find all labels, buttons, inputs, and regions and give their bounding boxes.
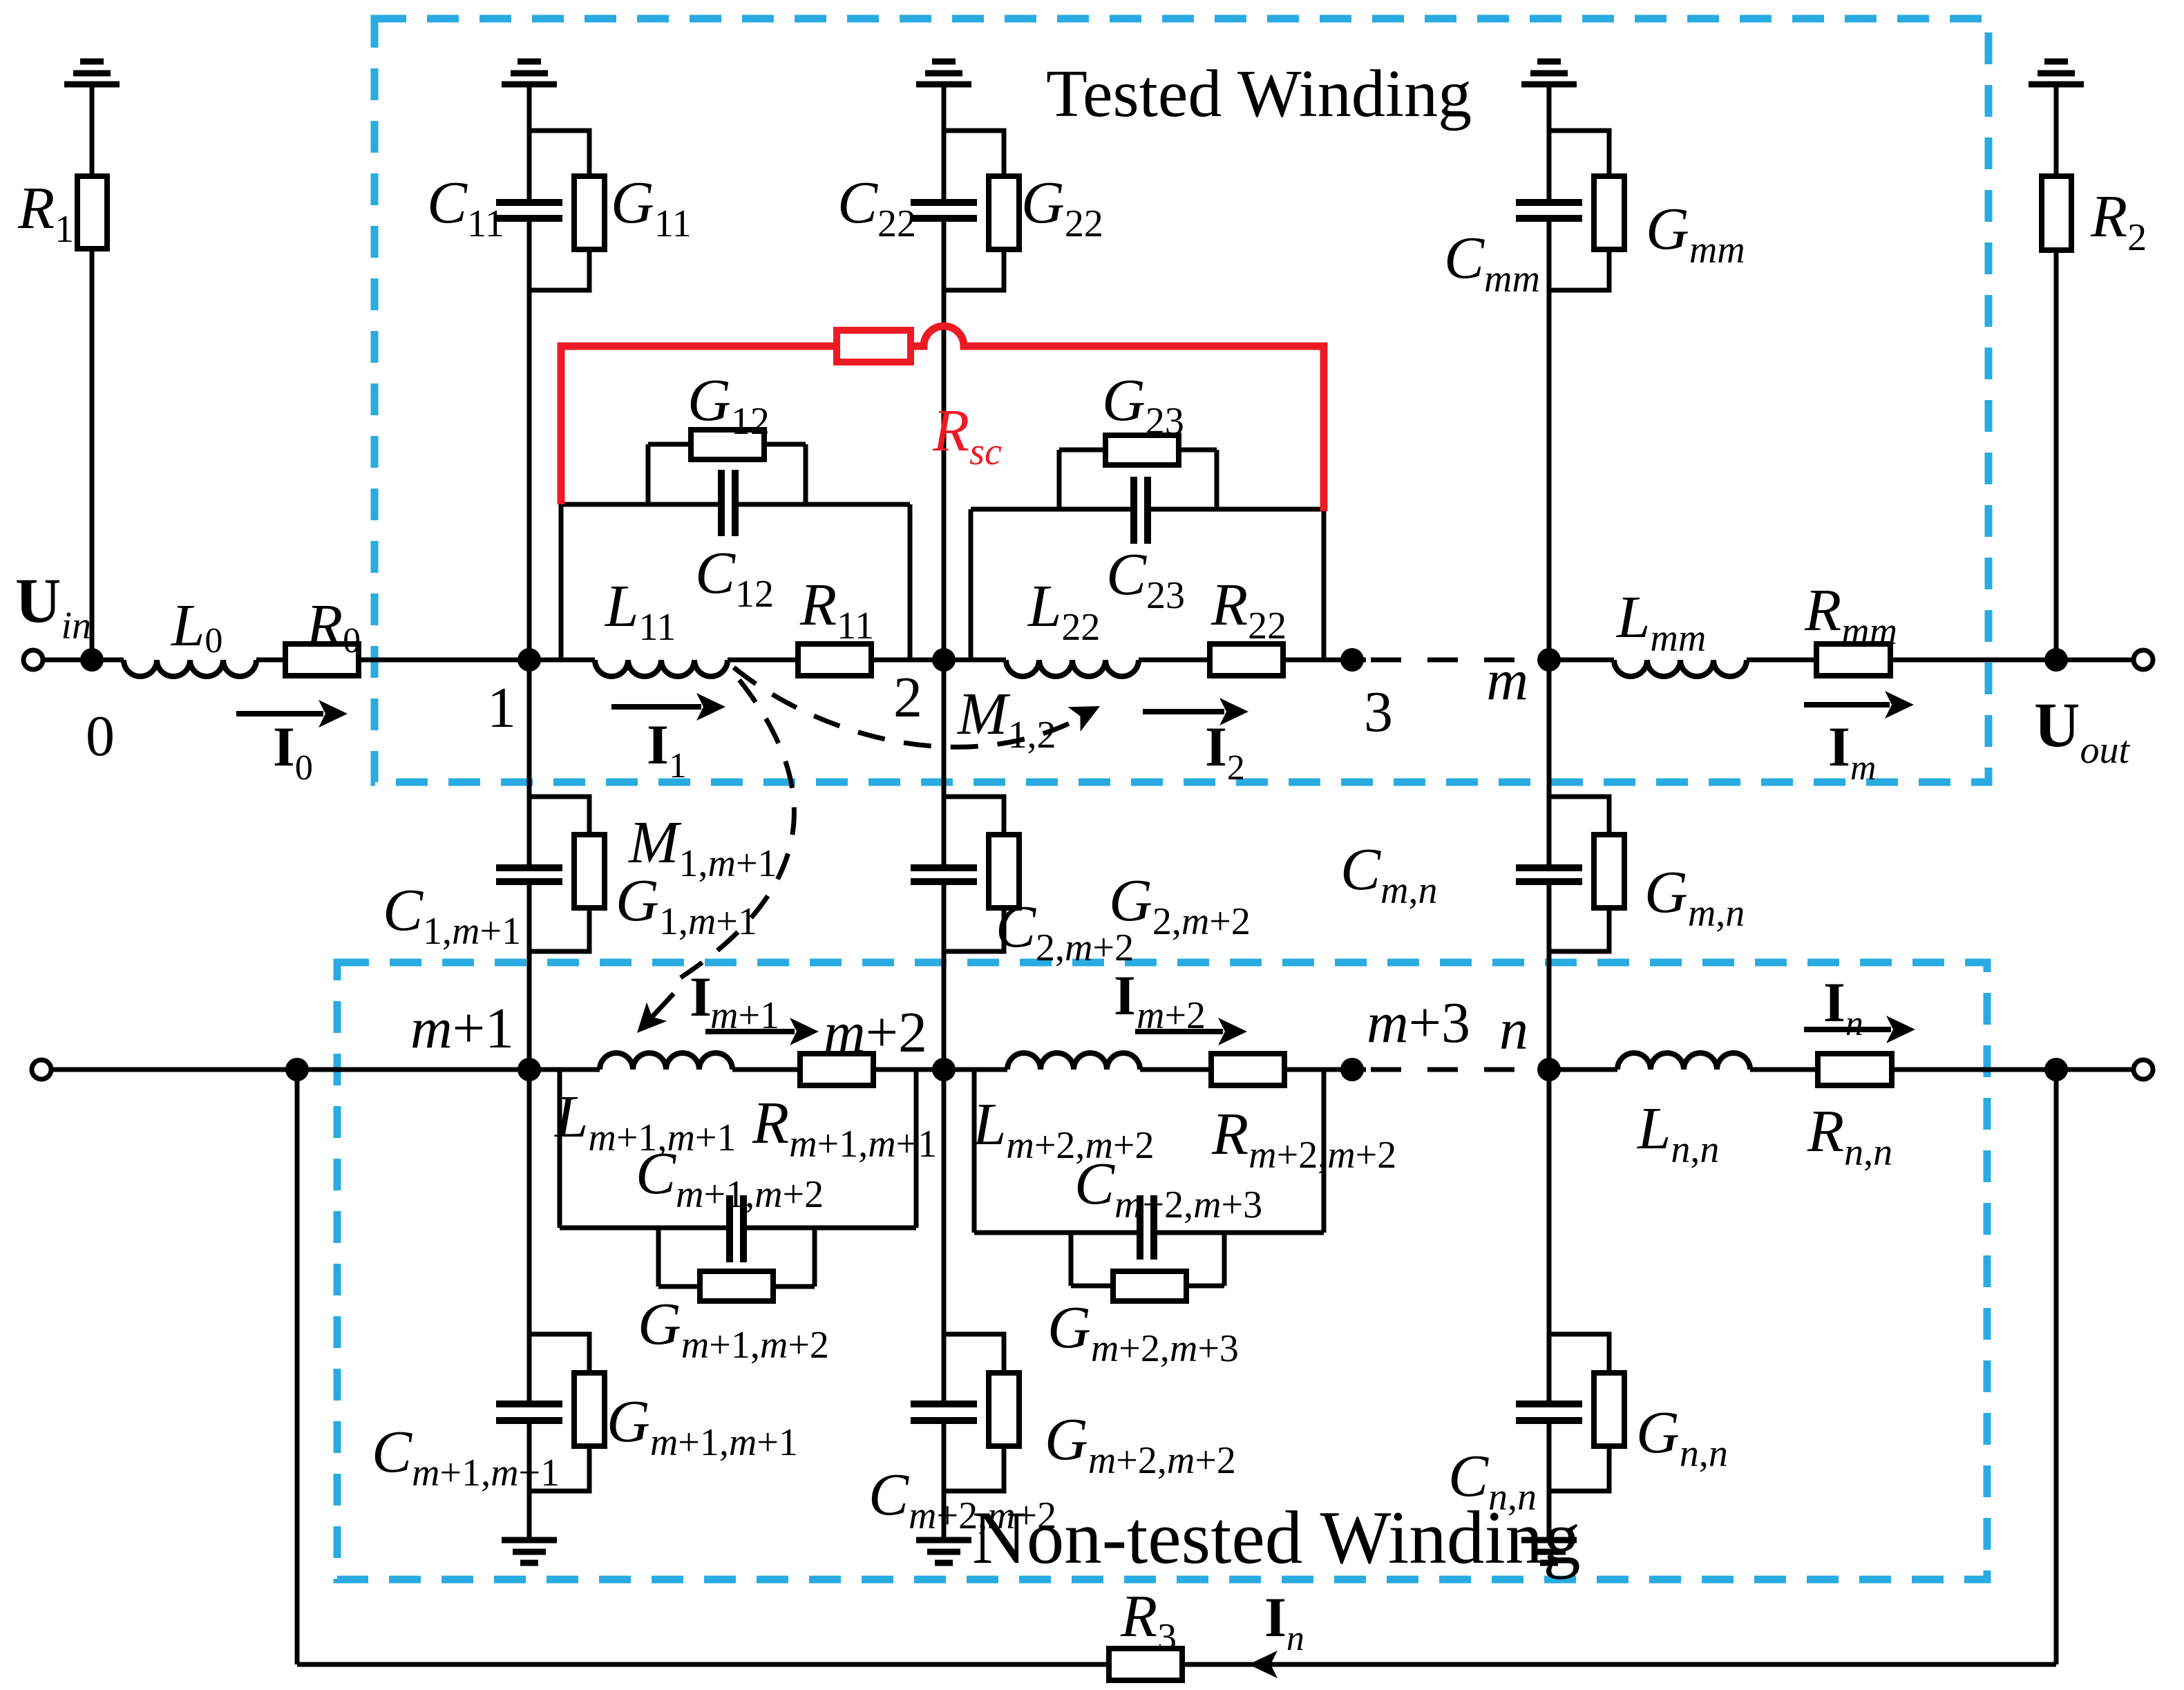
wire: G1,m+1 rejoin [529,908,589,951]
node 2 [932,648,956,672]
wire G12 subloop left [646,444,651,504]
arrow I0 [236,711,323,716]
wire Gm+1,m+2 subloop left [656,1228,661,1287]
capacitor C12 plates [718,470,725,536]
ground above Cmm/Gmm unit [1537,59,1561,65]
wire: branch to Gm,n [1549,797,1609,835]
wire: R1 to node 0 [90,249,95,660]
wire top bus: terminal to L0 [43,658,124,663]
svg-text:m+3: m+3 [1367,991,1470,1055]
node m+3 [1340,1058,1364,1081]
conductance Gm+2,m+3 [1113,1271,1186,1301]
node 1 [517,648,541,672]
wire top bus: Rmm to right terminal [1890,658,2134,663]
wire: node to capacitor Cm+2,m+2 [942,1070,947,1404]
arrow I1 [611,704,701,710]
wire: Cm,n to bottom node [1547,882,1552,1070]
svg-text:1: 1 [487,676,516,740]
conductance Gm+2,m+2 [989,1373,1019,1446]
wire: ground to R2 [2054,84,2059,176]
wire: Cm+2,m+2 to ground [942,1421,947,1540]
svg-text:2: 2 [893,665,922,730]
wire bottom bus: Ln to Rn [1750,1067,1818,1072]
wire Gm+2,m+3 subloop right [1222,1233,1227,1286]
wire bottom bus dashed: node m+3 to node n [1371,1067,1549,1072]
resistor R22 [1210,644,1283,676]
wire: C1,m+1 to bottom node [527,882,532,1070]
wire top bus dashed: node 3 to node m [1371,658,1549,663]
wire: node to capacitor C1,m+1 [527,660,532,868]
wire top bus: R0 to node 1 to L11 [359,658,595,663]
wire: return line left of R3 [297,1662,1109,1667]
resistor R2 [2042,176,2071,250]
resistor Rm+1,m+1 [800,1054,873,1085]
conductance G22 [989,176,1019,249]
wire top bus: R11 to node 2 to L22 [871,658,1006,663]
conductance Gmm [1594,176,1624,249]
wire loop B left vertical [969,509,974,660]
wire: return line right of R3 [1182,1662,2056,1667]
wire Gm+1,m+2 subloop right [813,1228,817,1287]
node m [1537,648,1561,672]
terminal bottom right [2134,1060,2153,1079]
svg-text:3: 3 [1364,680,1393,744]
wire Gm+2,m+3 subloop left [1069,1233,1074,1286]
wire: branch to Gm+2,m+2 [944,1334,1004,1373]
inductor L22 [1006,660,1139,676]
wire bottom bus: Rm+2 to node m+3 [1284,1067,1366,1072]
wire: Gmm to top bus rejoin [1549,249,1609,290]
resistor Rsc (red) [837,330,911,362]
wire: C22 to top bus [942,218,947,660]
resistor R3 [1109,1649,1182,1680]
wire loop A left vertical [559,504,564,660]
red wire: loop A top to Rsc [561,346,837,504]
blue dashed box: Non-tested Winding region [337,962,1987,1579]
wire: bottom-right leg down [2054,1070,2059,1664]
svg-text:n: n [1499,998,1528,1062]
node 0 [80,648,104,672]
resistor R1 [77,176,107,249]
inductor Lm+2,m+2 [1007,1053,1140,1070]
wire G23 subloop right [1215,450,1219,509]
ground above C22/G22 unit [932,59,956,65]
wire: ground to capacitor C11 [527,84,532,200]
wire loop C right vertical [914,1070,919,1228]
wire G12 subloop top [648,442,691,447]
conductance Gm+1,m+1 [574,1373,605,1446]
resistor Rn,n [1818,1054,1892,1085]
arrow Im [1804,702,1890,708]
ground above C11/G11 unit [517,59,541,65]
inductor Ln,n [1617,1053,1750,1070]
inductor L0 [124,660,256,676]
junction bottom left [285,1058,309,1081]
inductor Lmm [1614,660,1747,676]
capacitor C23 plates [1130,477,1137,544]
ground below Cm+1,m+1 [502,1537,557,1544]
capacitor Cmm plates [1516,199,1582,206]
svg-text:Tested Winding: Tested Winding [1046,57,1472,131]
terminal bottom left [32,1060,51,1079]
conductance Gm+1,m+2 [700,1271,773,1301]
wire top bus: Lmm to Rmm [1747,658,1816,663]
wire loop A right vertical [908,504,913,660]
node Uout junction [2044,648,2068,672]
inductor Lm+1,m+1 [600,1053,732,1070]
arrow In bottom [1804,1027,1891,1032]
wire loop A top side [561,502,719,507]
wire: Cmm to top bus [1547,218,1552,660]
wire loop C bottom side [560,1226,727,1231]
wire: branch to Gmm [1549,131,1609,176]
inductor L11 [595,660,728,676]
wire bottom bus: node n to Ln [1549,1067,1617,1072]
wire bottom bus: Rm+1 to node m+2 to Lm+2 [873,1067,1007,1072]
wire: branch to G2,m+2 [944,797,1004,835]
wire: G11 to top bus rejoin [529,249,589,290]
ground below Cm+2,m+2 [916,1537,971,1544]
capacitor Cm+1,m+2 plates [726,1195,733,1262]
wire bottom bus: Lm+2 to Rm+2 [1140,1067,1211,1072]
svg-text:m+2: m+2 [824,1000,927,1065]
wire bottom bus: Lm+1 to Rm+1 [732,1067,800,1072]
svg-text:I: I [690,965,712,1028]
wire top bus: L11 to R11 [728,658,798,663]
resistor Rmm [1816,644,1890,676]
wire: G22 to top bus rejoin [944,249,1004,290]
conductance G11 [574,176,605,249]
capacitor C22 plates [911,199,977,206]
terminal Uout [2134,650,2153,670]
wire top bus: node m to Lmm [1549,658,1614,663]
wire Gm+1,m+2 subloop bottom [658,1284,700,1289]
mutual coupling arc M1,2 [734,667,1079,747]
wire: C11 to top bus [527,218,532,660]
wire bottom bus: Rn to right terminal [1892,1067,2134,1072]
wire: Gn,n rejoin [1549,1446,1609,1491]
wire: Gm,n rejoin [1549,908,1609,951]
wire: node to capacitor C2,m+2 [942,660,947,868]
capacitor Cm+1,m+1 plates [496,1401,562,1407]
wire top bus: L22 to R22 [1139,658,1210,663]
capacitor C1,m+1 plates [496,864,562,871]
wire bottom bus: terminal to node m+1 to Lm+1 [51,1067,600,1072]
conductance G23 [1105,435,1179,465]
wire loop D bottom side [974,1231,1137,1235]
conductance G1,m+1 [574,835,605,908]
wire loop B right vertical [1322,509,1327,660]
wire: ground to R1 [90,84,95,176]
wire: R2 to top bus [2054,250,2059,660]
arrow In on return line [1248,1651,1278,1678]
resistor Rm+2,m+2 [1211,1054,1284,1085]
capacitor Cm,n plates [1516,864,1582,871]
wire: G2,m+2 rejoin [944,908,1004,951]
wire: branch to G1,m+1 [529,797,589,835]
svg-text:I: I [1114,964,1136,1027]
wire G23 subloop top [1059,448,1105,453]
capacitor Cn,n plates [1516,1401,1582,1407]
capacitor Cm+2,m+3 plates [1137,1195,1143,1260]
wire: branch to Gm+1,m+1 [529,1334,589,1373]
terminal Uin [23,650,43,670]
wire loop B top side [971,507,1131,512]
capacitor C11 plates [496,199,562,206]
node m+2 [932,1058,956,1081]
resistor R11 [798,644,871,676]
wire top bus: R22 to node 3 [1283,658,1366,663]
node 3 [1340,648,1364,672]
wire: branch to G11 [529,131,589,176]
conductance Gn,n [1594,1373,1624,1446]
wire: node to capacitor Cn,n [1547,1070,1552,1404]
wire: branch to Gn,n [1549,1334,1609,1373]
wire G12 subloop right [804,444,808,504]
wire: C2,m+2 to bottom node [942,882,947,1070]
node m+1 [517,1058,541,1081]
wire: bottom-left leg down [295,1070,300,1664]
wire: Cn,n to ground [1547,1421,1552,1540]
resistor R0 [285,644,359,676]
wire: Cm+1,m+1 to ground [527,1421,532,1540]
ground below Cn,n [1521,1537,1577,1544]
wire G23 subloop left [1057,450,1062,509]
wire: node to capacitor Cm+1,m+1 [527,1070,532,1404]
wire: branch to G22 [944,131,1004,176]
wire: ground to capacitor Cmm [1547,84,1552,200]
capacitor C2,m+2 plates [911,864,977,871]
svg-text:0: 0 [86,704,115,768]
conductance Gm,n [1594,835,1624,908]
conductance G2,m+2 [989,835,1019,908]
ground above R2 [2044,59,2068,65]
wire top bus: L0 to R0 [256,658,285,663]
svg-text:m: m [1486,648,1528,712]
arrow I2 [1143,709,1224,714]
wire: Gm+1,m+1 rejoin [529,1446,589,1491]
red wire: Rsc hump over node-2 line and down to loop B [911,326,1324,511]
svg-text:m+1: m+1 [410,996,514,1061]
wire loop D left vertical [972,1070,977,1233]
wire: node to capacitor Cm,n [1547,660,1552,868]
wire Gm+2,m+3 subloop bottom [1071,1284,1113,1289]
capacitor Cm+2,m+2 plates [911,1401,977,1407]
wire: ground to capacitor C22 [942,84,947,200]
wire loop C left vertical [558,1070,562,1228]
wire loop D right vertical [1322,1070,1327,1233]
ground above R1 [80,59,104,65]
node n [1537,1058,1561,1081]
mutual coupling arc M1,m+1 [681,680,794,978]
blue dashed box: Tested Winding region [374,19,1988,782]
wire: Gm+2,m+2 rejoin [944,1446,1004,1491]
conductance G12 [691,430,764,459]
junction bottom right [2044,1058,2068,1081]
